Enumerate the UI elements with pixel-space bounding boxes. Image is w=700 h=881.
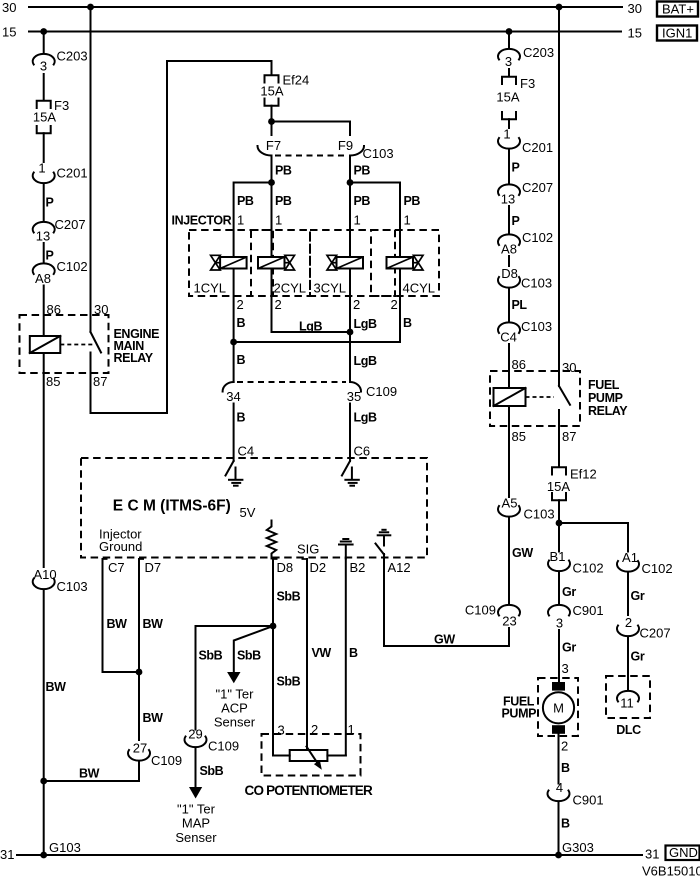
svg-text:Ef12: Ef12 [570, 467, 597, 482]
svg-text:1: 1 [354, 213, 361, 228]
svg-text:C7: C7 [108, 560, 125, 575]
svg-text:Gr: Gr [631, 650, 645, 664]
svg-text:CO POTENTIOMETER: CO POTENTIOMETER [245, 783, 374, 798]
svg-text:BW: BW [107, 617, 128, 631]
svg-text:C103: C103 [57, 579, 88, 594]
svg-text:15: 15 [628, 26, 642, 41]
svg-text:1: 1 [404, 213, 411, 228]
svg-text:M: M [553, 701, 564, 716]
svg-text:C201: C201 [522, 140, 553, 155]
svg-text:15A: 15A [547, 479, 570, 494]
svg-text:PUMP: PUMP [588, 391, 623, 405]
svg-text:2: 2 [561, 739, 568, 754]
svg-text:P: P [512, 161, 520, 175]
svg-text:D8: D8 [277, 560, 294, 575]
svg-text:2CYL: 2CYL [274, 281, 307, 296]
svg-text:SbB: SbB [277, 675, 301, 689]
svg-text:F3: F3 [520, 76, 535, 91]
svg-text:D7: D7 [145, 560, 162, 575]
svg-text:87: 87 [562, 429, 576, 444]
svg-text:A1: A1 [622, 550, 638, 565]
svg-text:PL: PL [512, 298, 528, 312]
svg-text:G103: G103 [49, 840, 81, 855]
svg-text:E C M (ITMS-6F): E C M (ITMS-6F) [113, 498, 231, 515]
svg-text:C102: C102 [642, 561, 673, 576]
svg-text:1: 1 [503, 127, 510, 142]
svg-text:85: 85 [512, 429, 526, 444]
svg-text:C103: C103 [521, 319, 552, 334]
svg-text:C6: C6 [354, 444, 371, 459]
svg-text:"1" Ter: "1" Ter [177, 802, 216, 817]
svg-text:PB: PB [354, 164, 371, 178]
svg-text:A12: A12 [388, 560, 411, 575]
svg-text:LgB: LgB [354, 354, 377, 368]
svg-text:LgB: LgB [354, 317, 377, 331]
svg-text:GW: GW [512, 546, 533, 560]
svg-text:31: 31 [645, 847, 659, 862]
svg-text:PB: PB [275, 194, 292, 208]
svg-text:BW: BW [46, 680, 67, 694]
svg-text:VW: VW [312, 646, 332, 660]
svg-text:1: 1 [38, 161, 45, 176]
svg-text:2: 2 [353, 297, 360, 312]
svg-text:C102: C102 [57, 259, 88, 274]
svg-text:Ef24: Ef24 [283, 73, 310, 88]
svg-text:27: 27 [133, 741, 147, 756]
svg-text:1CYL: 1CYL [194, 281, 227, 296]
svg-text:15A: 15A [260, 84, 283, 99]
svg-text:D8: D8 [501, 266, 518, 281]
svg-text:C203: C203 [523, 45, 554, 60]
svg-text:C207: C207 [55, 217, 86, 232]
svg-text:1: 1 [237, 213, 244, 228]
svg-text:SbB: SbB [200, 764, 224, 778]
svg-text:DLC: DLC [616, 723, 641, 737]
svg-text:PB: PB [275, 164, 292, 178]
svg-text:RELAY: RELAY [114, 351, 154, 365]
svg-text:LgB: LgB [354, 411, 377, 425]
svg-text:B: B [561, 761, 570, 775]
svg-text:A5: A5 [502, 496, 518, 511]
svg-text:F9: F9 [338, 138, 353, 153]
svg-text:ACP: ACP [221, 701, 248, 716]
svg-text:C109: C109 [151, 753, 182, 768]
svg-text:SbB: SbB [237, 649, 261, 663]
svg-text:V6B15010: V6B15010 [642, 864, 700, 879]
svg-text:A8: A8 [501, 242, 517, 257]
svg-text:PUMP: PUMP [502, 707, 537, 721]
svg-text:C901: C901 [573, 603, 604, 618]
svg-text:C201: C201 [57, 166, 88, 181]
svg-text:B: B [403, 316, 412, 330]
svg-text:Gr: Gr [562, 641, 576, 655]
svg-text:85: 85 [46, 374, 60, 389]
svg-text:3: 3 [278, 723, 285, 738]
svg-text:3: 3 [562, 661, 569, 676]
svg-text:A10: A10 [34, 567, 57, 582]
svg-text:13: 13 [501, 192, 515, 207]
svg-text:Ground: Ground [99, 539, 142, 554]
svg-text:3: 3 [40, 59, 47, 74]
svg-text:B: B [349, 646, 358, 660]
svg-text:B: B [561, 817, 570, 831]
svg-text:PB: PB [354, 194, 371, 208]
svg-text:30: 30 [2, 0, 16, 15]
svg-text:30: 30 [562, 360, 576, 375]
svg-text:3CYL: 3CYL [314, 281, 347, 296]
svg-text:4: 4 [556, 780, 563, 795]
svg-text:C102: C102 [573, 561, 604, 576]
svg-text:2: 2 [237, 297, 244, 312]
svg-text:C207: C207 [522, 180, 553, 195]
svg-text:2: 2 [391, 297, 398, 312]
svg-text:C102: C102 [522, 230, 553, 245]
svg-text:5V: 5V [240, 505, 256, 520]
svg-text:P: P [46, 196, 54, 210]
svg-text:"1" Ter: "1" Ter [216, 687, 255, 702]
svg-text:Senser: Senser [175, 830, 217, 845]
svg-text:P: P [512, 214, 520, 228]
svg-text:GW: GW [434, 633, 455, 647]
svg-text:D2: D2 [310, 560, 327, 575]
svg-text:C901: C901 [573, 793, 604, 808]
svg-text:RELAY: RELAY [588, 404, 628, 418]
svg-text:SIG: SIG [297, 542, 319, 557]
svg-text:15A: 15A [496, 90, 519, 105]
svg-text:BW: BW [79, 767, 100, 781]
svg-text:C4: C4 [238, 444, 255, 459]
svg-text:F7: F7 [266, 138, 281, 153]
svg-text:C103: C103 [521, 276, 552, 291]
svg-text:34: 34 [226, 389, 240, 404]
svg-text:SbB: SbB [277, 590, 301, 604]
svg-text:29: 29 [188, 727, 202, 742]
svg-text:30: 30 [628, 1, 642, 16]
svg-text:PB: PB [237, 194, 254, 208]
svg-text:15A: 15A [33, 110, 56, 125]
svg-text:3: 3 [505, 54, 512, 69]
svg-text:B: B [237, 316, 246, 330]
svg-text:30: 30 [94, 302, 108, 317]
svg-text:C109: C109 [208, 739, 239, 754]
svg-text:SbB: SbB [199, 649, 223, 663]
svg-text:C4: C4 [500, 330, 517, 345]
svg-text:11: 11 [620, 696, 634, 711]
svg-text:Gr: Gr [562, 585, 576, 599]
svg-text:2: 2 [275, 297, 282, 312]
svg-text:IGN1: IGN1 [662, 26, 692, 41]
svg-text:C103: C103 [524, 507, 555, 522]
svg-text:C109: C109 [465, 603, 496, 618]
svg-text:B: B [237, 411, 246, 425]
svg-text:2: 2 [625, 615, 632, 630]
svg-text:B2: B2 [350, 560, 366, 575]
svg-text:1: 1 [275, 213, 282, 228]
svg-text:15: 15 [2, 25, 16, 40]
svg-text:F3: F3 [54, 98, 69, 113]
svg-text:P: P [46, 249, 54, 263]
svg-text:BAT+: BAT+ [662, 2, 694, 17]
svg-text:4CYL: 4CYL [403, 281, 436, 296]
svg-text:23: 23 [502, 614, 516, 629]
svg-text:87: 87 [93, 374, 107, 389]
svg-text:86: 86 [512, 357, 526, 372]
svg-text:C109: C109 [366, 384, 397, 399]
svg-text:BW: BW [143, 617, 164, 631]
svg-text:GND: GND [669, 845, 698, 860]
svg-text:35: 35 [347, 389, 361, 404]
svg-text:PB: PB [404, 194, 421, 208]
svg-text:A8: A8 [35, 271, 51, 286]
svg-text:13: 13 [36, 229, 50, 244]
svg-text:MAP: MAP [182, 816, 210, 831]
svg-text:BW: BW [143, 711, 164, 725]
svg-text:C207: C207 [640, 626, 671, 641]
svg-text:B1: B1 [550, 549, 566, 564]
svg-text:31: 31 [0, 847, 14, 862]
svg-text:C203: C203 [57, 49, 88, 64]
svg-text:G303: G303 [562, 840, 594, 855]
svg-text:3: 3 [556, 616, 563, 631]
svg-text:Gr: Gr [631, 589, 645, 603]
svg-text:C103: C103 [363, 146, 394, 161]
svg-text:INJECTOR: INJECTOR [172, 214, 232, 228]
svg-text:Senser: Senser [214, 715, 256, 730]
svg-text:B: B [237, 353, 246, 367]
svg-text:FUEL: FUEL [588, 378, 620, 392]
